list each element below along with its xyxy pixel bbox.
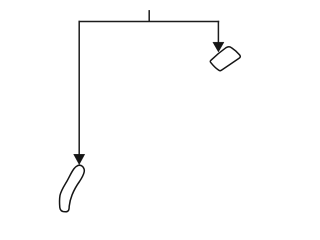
support tick [148, 10, 150, 21]
left arrowhead [74, 154, 85, 164]
right wire [217, 21, 219, 43]
eraser (right hanging object) [210, 47, 240, 71]
horizontal hanger bar [79, 21, 220, 23]
right arrowhead [213, 42, 224, 52]
left wire [78, 21, 80, 155]
chalk stick (left hanging object) [60, 165, 85, 212]
